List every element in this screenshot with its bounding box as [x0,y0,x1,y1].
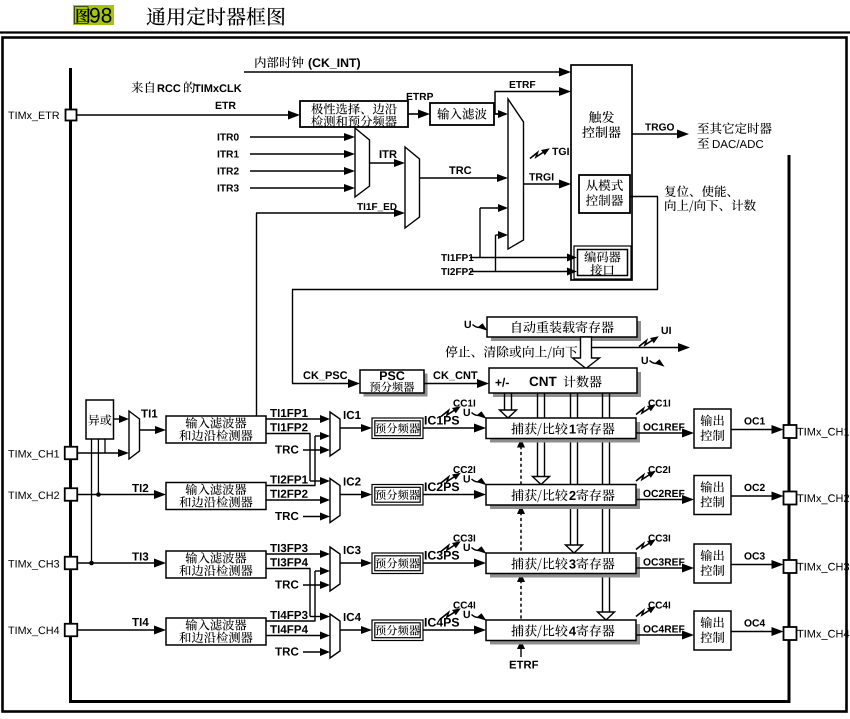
interrupt CC3I left [453,535,475,542]
block capture/compare register 3 捕获/比较3寄存器 [490,557,640,578]
interrupt CC2I left [453,466,475,473]
wire TI4 [132,618,149,626]
wire OC3REF [643,558,684,565]
block input filter 输入滤波 [430,103,494,125]
wire TI2FP2 to encoder and trigger mux [441,268,473,275]
mux IC3 select [330,547,340,591]
block prescaler 预分频器 channel 3 [372,553,423,574]
wire OC2 [744,484,764,491]
crossover wire TI4FP3 up to IC3 [314,571,316,621]
crossover wire TI1FP2 down to IC2 [309,434,311,482]
wire TRC [449,166,471,174]
pin TIMx_CH1 left [8,450,59,460]
wire TI1F_ED [357,203,397,211]
wire ITR [380,150,397,158]
update event U into ARR [465,321,488,331]
wire TI1FP1 [270,409,308,417]
wire ETR [77,114,289,116]
wire OC2REF [643,490,684,497]
wire ETRF into capture 4 [520,640,522,657]
wire XOR out to TI1 mux [114,418,121,420]
wire OC1 [744,417,765,424]
mux ITR select [355,128,370,197]
wire slave mode controller to prescaler clock [630,196,658,198]
hollow arrow ARR to CNT [573,337,600,369]
label 停止、清除或向上/向下 [445,346,577,359]
bus CNT to capture/compare 2 [537,393,539,477]
mux IC4 select [330,614,340,658]
wire IC2PS [425,482,459,491]
wire filtered ETR into trigger mux [494,113,499,115]
wire IC2 to prescaler [340,494,362,496]
interrupt CC3I right [648,535,670,542]
label 至其它定时器 / 至 DAC/ADC [698,123,772,135]
mux TRC select [405,147,420,228]
interrupt TGI [552,148,569,155]
wire TI3FP3 [270,544,308,552]
block input filter & edge detector channel 1 输入滤波器和边沿检测器 [166,416,266,443]
block slave mode controller 从模式控制器 [579,175,630,213]
crossover wire TI3FP4 down to IC4 [309,569,311,617]
block input filter & edge detector channel 3 输入滤波器和边沿检测器 [166,551,266,578]
left bus line [69,68,72,702]
wire OC3 [744,552,764,559]
block output control channel 4 输出控制 [694,611,731,650]
wire TI3FP4 [270,558,308,566]
interrupt CC1I left [453,400,475,407]
wire IC4PS [425,618,459,627]
crossover wire TI2FP1 up to IC1 [314,436,316,486]
block trigger controller 触发控制器 [571,65,632,280]
interrupt CC2I right [648,466,670,473]
mux IC2 select [330,479,340,523]
pin TIMx_CH3 right [784,560,797,573]
wire TI1FP1 to encoder and trigger mux [441,254,473,261]
wire update event out [591,347,679,349]
wire TI4FP3 [270,611,308,619]
wire IC1 to prescaler [340,427,362,429]
wire IC3 to prescaler [340,562,362,564]
bus CNT to capture/compare 4 [602,393,604,612]
block output control channel 2 输出控制 [694,476,731,515]
figure tag 图98 [73,5,114,25]
wire TI2FP1 [270,475,308,483]
wire TRGO [645,123,674,130]
block input filter & edge detector channel 4 输入滤波器和边沿检测器 [166,618,266,645]
pin TIMx_ETR [8,112,59,122]
wire TRGI [529,173,553,180]
wire IC4 to prescaler [340,629,362,631]
wire TI2FP2 [270,490,308,498]
dashed capture chain x=521 [520,446,522,484]
mux TI1 select [129,411,140,459]
wire CK_INT to trigger controller [244,71,560,73]
node CK_INT [255,56,303,68]
pin TIMx_CH4 right [784,627,797,640]
wire CK_CNT [434,371,478,380]
block polarity/edge/prescaler 极性选择、边沿检测和预分频器 [300,101,408,127]
block XOR 异或 [86,400,114,439]
block output control channel 1 输出控制 [694,409,731,448]
label 来自RCC的TIMxCLK [131,82,154,94]
pin TIMx_CH2 left [8,492,59,502]
wires XOR inputs from CH1-CH3 [104,439,106,453]
interrupt CC4I left [453,602,475,609]
wire TI3 [132,552,148,560]
block capture/compare register 1 捕获/比较1寄存器 [490,422,640,443]
block input filter & edge detector channel 2 输入滤波器和边沿检测器 [166,483,266,510]
wire TRC channel 4 [275,647,298,655]
wire OC4REF [643,625,684,632]
wire IC3PS [425,551,459,560]
update U down [642,357,665,367]
wire TRC channel 3 [275,580,298,588]
interrupt CC1I right [648,400,670,407]
pin TIMx_CH3 left [8,560,59,570]
wire TI4FP4 [270,625,308,633]
right bus line [788,155,791,703]
bus CNT to capture/compare 1 [504,393,506,410]
block capture/compare register 2 捕获/比较2寄存器 [490,489,640,510]
block output control channel 3 输出控制 [694,544,731,583]
wire OC4 [744,619,765,626]
wire OC1REF [643,423,684,430]
wire ETRP [408,113,419,115]
block prescaler 预分频器 channel 2 [372,485,423,506]
bus CNT to capture/compare 3 [570,393,572,545]
wire ETRF to trigger controller [494,113,501,115]
block prescaler 预分频器 channel 1 [372,418,423,439]
mux trigger input select (big) [508,99,524,249]
wire TRC channel 2 [275,512,298,520]
label 复位、使能、向上/向下、计数 [665,185,731,197]
title 通用定时器框图 [147,7,285,26]
pin TIMx_CH2 right [784,492,797,505]
interrupt UI [662,327,671,334]
block capture/compare register 4 捕获/比较4寄存器 [490,624,640,645]
title separator rule [0,31,850,33]
block counter CNT 计数器 [493,372,641,397]
wire TRC channel 1 [275,445,298,453]
wire TI2 [132,484,148,492]
wire TI1FP2 [270,423,308,431]
mux IC1 select [330,412,340,456]
wire TI1 [141,410,157,418]
wire CK_PSC [304,371,348,380]
block auto-reload register 自动重装载寄存器 [491,321,641,341]
wire CH1 to TI1 mux [77,452,119,454]
block prescaler 预分频器 channel 4 [372,620,423,641]
interrupt CC4I right [648,602,670,609]
bottom bus line [69,700,791,703]
wires ITR0-ITR3 [218,133,239,140]
block encoder interface 编码器接口 [574,246,631,279]
wire IC1PS [425,416,459,425]
block PSC prescaler 预分频器 [364,374,428,397]
pin TIMx_CH4 left [8,627,59,637]
pin TIMx_CH1 right [784,425,797,438]
